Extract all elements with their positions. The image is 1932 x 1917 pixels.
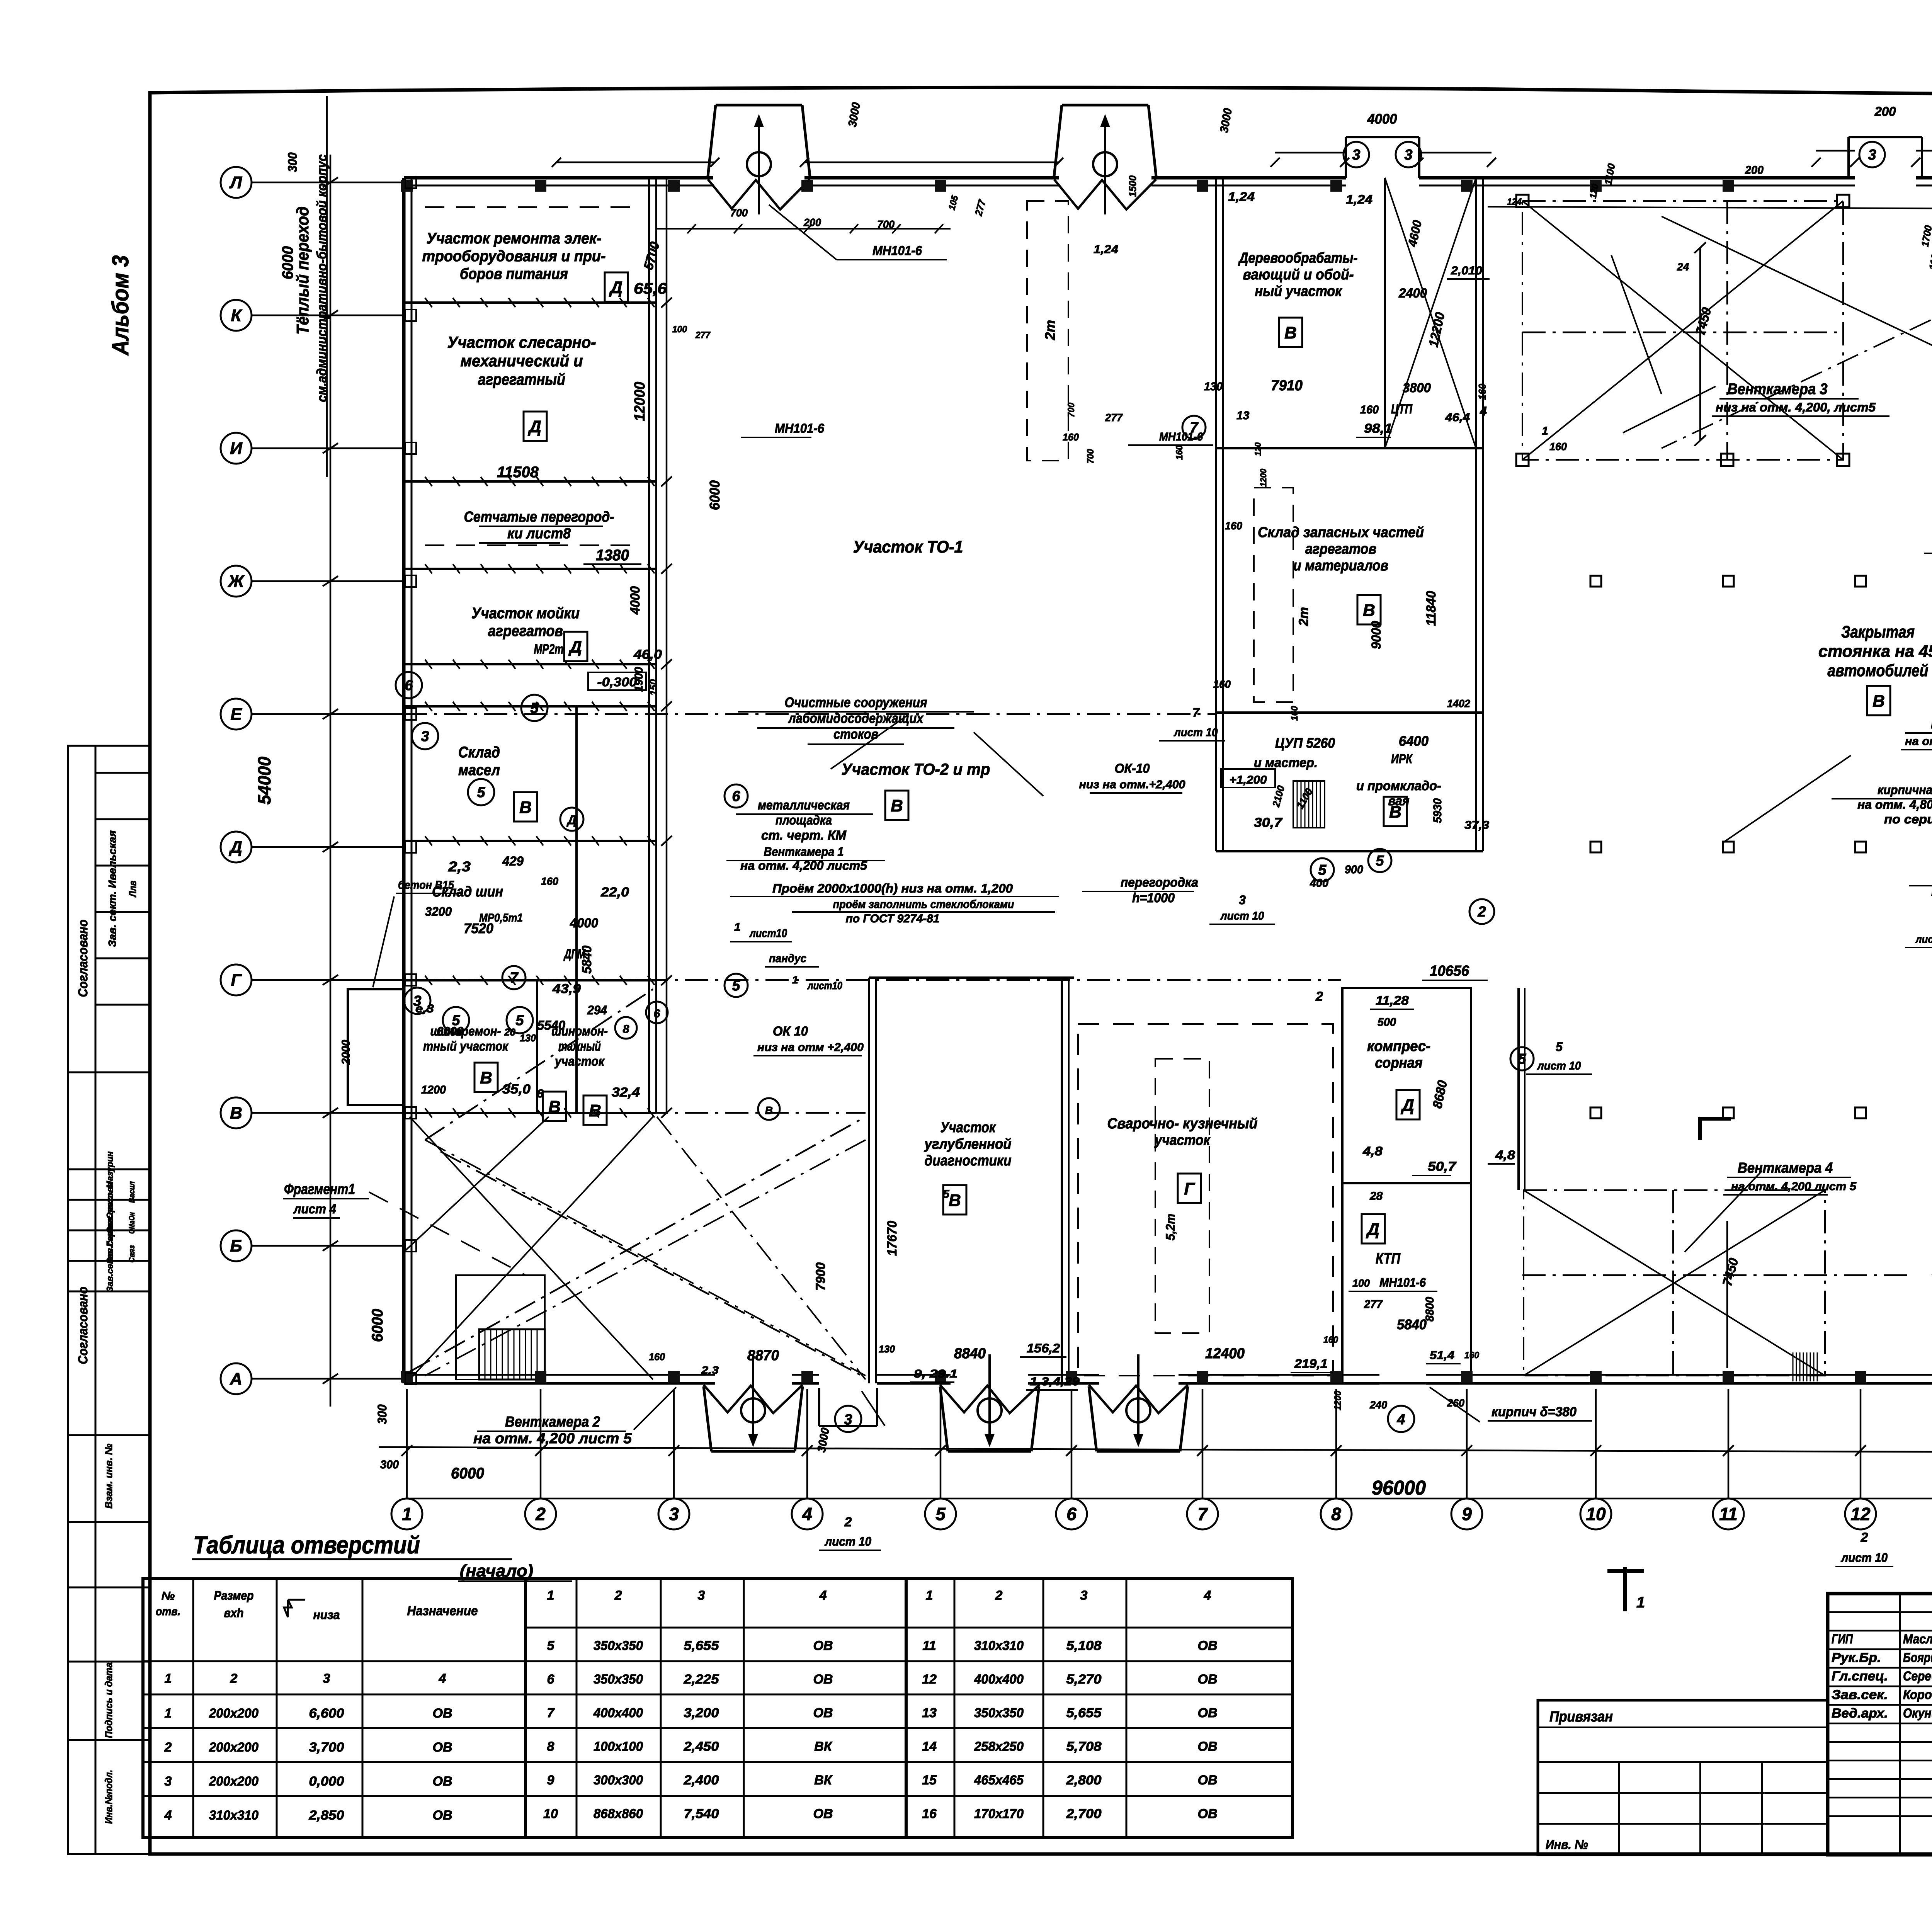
svg-text:Деревообрабаты-: Деревообрабаты- xyxy=(1238,250,1358,266)
svg-text:лист 10: лист 10 xyxy=(824,1534,871,1548)
svg-text:350х350: 350х350 xyxy=(594,1672,643,1687)
svg-text:А: А xyxy=(230,1369,242,1388)
svg-text:участок: участок xyxy=(1154,1132,1211,1148)
svg-text:2000: 2000 xyxy=(340,1040,352,1065)
svg-text:6: 6 xyxy=(547,1672,555,1687)
svg-text:В: В xyxy=(230,1104,242,1123)
svg-text:700: 700 xyxy=(1085,449,1096,464)
svg-text:Венткамера 1: Венткамера 1 xyxy=(764,845,844,859)
svg-text:200х200: 200х200 xyxy=(209,1740,259,1755)
svg-text:1200: 1200 xyxy=(1333,1390,1343,1410)
stamp rotated texts xyxy=(76,830,138,1824)
svg-text:и мастер.: и мастер. xyxy=(1254,755,1318,770)
svg-text:300х300: 300х300 xyxy=(594,1773,643,1788)
svg-text:2: 2 xyxy=(1861,1530,1868,1545)
svg-text:В: В xyxy=(589,1101,601,1120)
svg-text:96000: 96000 xyxy=(1372,1477,1426,1499)
svg-text:3: 3 xyxy=(1352,147,1360,163)
svg-text:боров питания: боров питания xyxy=(460,265,568,282)
svg-text:тный участок: тный участок xyxy=(423,1039,509,1054)
svg-text:98,1: 98,1 xyxy=(1364,421,1392,436)
svg-text:3: 3 xyxy=(1080,1588,1088,1603)
svg-text:трооборудования и при-: трооборудования и при- xyxy=(422,248,606,265)
svg-text:Венткамера 2: Венткамера 2 xyxy=(505,1414,600,1430)
svg-text:В: В xyxy=(1872,692,1885,711)
svg-text:6000: 6000 xyxy=(451,1465,484,1482)
svg-text:Д: Д xyxy=(527,417,541,436)
svg-text:1: 1 xyxy=(402,1504,412,1524)
svg-text:3200: 3200 xyxy=(425,905,452,919)
svg-text:3,200: 3,200 xyxy=(684,1706,719,1720)
svg-text:h=1000: h=1000 xyxy=(1132,891,1175,905)
svg-text:240: 240 xyxy=(1369,1399,1387,1411)
svg-text:ВК: ВК xyxy=(814,1773,833,1788)
svg-text:200: 200 xyxy=(1874,104,1896,119)
svg-text:400: 400 xyxy=(1310,877,1328,890)
svg-text:310х310: 310х310 xyxy=(209,1808,259,1823)
svg-text:219,1: 219,1 xyxy=(1294,1357,1328,1371)
svg-text:Взам. инв. №: Взам. инв. № xyxy=(103,1444,114,1509)
svg-text:160: 160 xyxy=(1464,1350,1480,1361)
svg-text:120: 120 xyxy=(1253,442,1263,456)
svg-text:Закрытая: Закрытая xyxy=(1841,623,1915,641)
svg-text:1: 1 xyxy=(1542,425,1548,437)
svg-text:13: 13 xyxy=(922,1706,937,1720)
svg-text:лист10: лист10 xyxy=(749,927,787,940)
left stamp column grid xyxy=(68,746,150,1854)
left dim line xyxy=(323,155,338,1407)
svg-text:ОВ: ОВ xyxy=(1198,1638,1218,1653)
svg-text:1: 1 xyxy=(547,1588,554,1603)
svg-text:868х860: 868х860 xyxy=(594,1806,643,1821)
svg-text:14: 14 xyxy=(922,1739,937,1754)
svg-text:1402: 1402 xyxy=(1447,697,1470,709)
warm passage note xyxy=(293,96,330,477)
svg-text:5: 5 xyxy=(732,978,740,994)
svg-text:ОВ: ОВ xyxy=(1198,1739,1218,1754)
svg-text:5: 5 xyxy=(452,1012,460,1029)
svg-text:4: 4 xyxy=(439,1671,446,1686)
svg-text:3: 3 xyxy=(1239,893,1246,907)
dims left xyxy=(254,152,389,1424)
svg-text:5,2т: 5,2т xyxy=(1163,1214,1177,1240)
svg-text:6000: 6000 xyxy=(707,480,723,510)
svg-text:1: 1 xyxy=(792,974,798,986)
svg-text:11508: 11508 xyxy=(497,464,539,481)
svg-text:металлическая: металлическая xyxy=(758,798,850,813)
svg-text:3: 3 xyxy=(413,993,421,1009)
svg-text:лист 10: лист 10 xyxy=(1537,1060,1581,1072)
svg-text:500: 500 xyxy=(1378,1016,1396,1029)
svg-text:24: 24 xyxy=(1677,261,1689,273)
svg-text:ОВ: ОВ xyxy=(813,1706,833,1720)
svg-text:Д: Д xyxy=(1400,1096,1414,1115)
svg-text:8: 8 xyxy=(623,1023,629,1036)
svg-text:10: 10 xyxy=(543,1806,558,1821)
svg-text:Назначение: Назначение xyxy=(407,1604,478,1618)
svg-text:28: 28 xyxy=(1369,1190,1383,1203)
svg-text:пандус: пандус xyxy=(769,952,806,965)
svg-text:5: 5 xyxy=(1518,1051,1526,1067)
svg-text:ЦТП: ЦТП xyxy=(1391,402,1413,417)
svg-text:12: 12 xyxy=(1850,1504,1871,1524)
svg-text:вхh: вхh xyxy=(224,1606,244,1620)
svg-text:агрегатов: агрегатов xyxy=(1305,541,1376,557)
svg-text:2: 2 xyxy=(844,1515,852,1529)
svg-text:160: 160 xyxy=(1360,403,1379,416)
svg-text:7: 7 xyxy=(547,1706,555,1720)
svg-text:160: 160 xyxy=(541,875,558,887)
svg-text:Бояршинов: Бояршинов xyxy=(1903,1650,1932,1665)
svg-text:294: 294 xyxy=(587,1003,607,1017)
svg-text:9: 9 xyxy=(547,1773,554,1788)
svg-text:диагностики: диагностики xyxy=(925,1153,1012,1169)
svg-text:100х100: 100х100 xyxy=(594,1739,643,1754)
svg-text:углубленной: углубленной xyxy=(924,1136,1012,1152)
svg-text:Участок слесарно-: Участок слесарно- xyxy=(447,333,596,351)
svg-text:Окунцов: Окунцов xyxy=(1903,1706,1932,1721)
svg-text:170х170: 170х170 xyxy=(974,1806,1024,1821)
svg-text:8: 8 xyxy=(537,1087,544,1100)
svg-text:В: В xyxy=(949,1191,961,1210)
room labels xyxy=(283,101,1932,1567)
svg-text:4000: 4000 xyxy=(1367,111,1397,127)
svg-text:проём заполнить стеклоблоками: проём заполнить стеклоблоками xyxy=(833,898,1014,911)
svg-text:3: 3 xyxy=(1868,147,1876,163)
svg-text:Гл.спец.: Гл.спец. xyxy=(1832,1669,1888,1684)
svg-text:Фрагмент1: Фрагмент1 xyxy=(284,1181,355,1197)
left axis circles xyxy=(221,167,252,1394)
svg-text:6000: 6000 xyxy=(279,246,296,279)
svg-text:МН101-6: МН101-6 xyxy=(775,421,825,436)
svg-text:МР2т: МР2т xyxy=(534,641,564,657)
svg-text:7910: 7910 xyxy=(1271,378,1303,394)
svg-text:Г: Г xyxy=(231,971,242,990)
svg-text:160: 160 xyxy=(649,1351,665,1362)
svg-text:4,8: 4,8 xyxy=(1495,1148,1515,1162)
svg-text:9: 9 xyxy=(1462,1504,1472,1524)
svg-text:258х250: 258х250 xyxy=(974,1739,1024,1754)
svg-text:Размер: Размер xyxy=(214,1589,254,1602)
left axis leaders xyxy=(252,182,402,1379)
table texts xyxy=(156,1588,1218,1823)
svg-text:54000: 54000 xyxy=(254,757,274,805)
svg-text:700: 700 xyxy=(1066,402,1077,417)
svg-text:1200: 1200 xyxy=(1259,468,1268,487)
svg-text:200: 200 xyxy=(803,216,821,228)
bottom axis leaders xyxy=(407,1389,1932,1499)
svg-text:Согласовано: Согласовано xyxy=(76,1287,90,1364)
svg-text:4000: 4000 xyxy=(628,586,643,615)
svg-text:кирпич δ=380: кирпич δ=380 xyxy=(1492,1405,1577,1419)
svg-text:2,3: 2,3 xyxy=(448,859,471,874)
svg-text:лист 10: лист 10 xyxy=(1173,726,1218,739)
svg-text:124: 124 xyxy=(1507,197,1522,207)
svg-text:и промкладо-: и промкладо- xyxy=(1356,779,1441,793)
svg-text:310х310: 310х310 xyxy=(974,1638,1024,1653)
svg-text:2т: 2т xyxy=(1296,607,1311,626)
svg-text:Инв. №: Инв. № xyxy=(1546,1837,1588,1852)
svg-text:бетон В15: бетон В15 xyxy=(398,879,454,891)
svg-text:Рук.Бр.: Рук.Бр. xyxy=(1832,1650,1881,1665)
svg-text:В: В xyxy=(1363,601,1375,620)
svg-text:260: 260 xyxy=(1447,1397,1464,1409)
svg-text:2400: 2400 xyxy=(1398,286,1427,301)
svg-text:1: 1 xyxy=(165,1671,172,1686)
svg-text:Масленников: Масленников xyxy=(1903,1632,1932,1647)
svg-text:2,3: 2,3 xyxy=(701,1364,719,1376)
svg-text:В: В xyxy=(519,798,532,817)
svg-text:отв.: отв. xyxy=(156,1605,180,1618)
svg-text:В: В xyxy=(548,1097,561,1116)
svg-text:11840: 11840 xyxy=(1424,591,1439,626)
svg-text:4: 4 xyxy=(1204,1588,1211,1603)
svg-text:В: В xyxy=(765,1104,773,1116)
svg-text:160: 160 xyxy=(1323,1335,1338,1345)
svg-text:7,540: 7,540 xyxy=(684,1806,719,1821)
svg-text:160: 160 xyxy=(1213,678,1231,690)
svg-text:300: 300 xyxy=(286,152,299,172)
bottom connector line xyxy=(407,1498,1932,1500)
svg-text:участок: участок xyxy=(554,1054,605,1069)
svg-text:5,708: 5,708 xyxy=(1066,1739,1102,1754)
svg-text:11: 11 xyxy=(922,1638,936,1653)
svg-text:МН101-6: МН101-6 xyxy=(1379,1276,1426,1289)
svg-text:6: 6 xyxy=(654,1007,660,1020)
svg-text:ОВ: ОВ xyxy=(1198,1773,1218,1788)
svg-text:2,400: 2,400 xyxy=(683,1773,719,1788)
svg-text:+1,200: +1,200 xyxy=(1230,774,1267,786)
svg-text:Зав.сект. Гаррес: Зав.сект. Гаррес xyxy=(105,1216,115,1292)
svg-text:30,7: 30,7 xyxy=(1254,815,1283,830)
svg-text:100: 100 xyxy=(1352,1277,1370,1289)
svg-text:Участок ТО-1: Участок ТО-1 xyxy=(853,538,963,556)
column ticks top wall xyxy=(348,105,1932,1611)
svg-text:350х350: 350х350 xyxy=(594,1638,643,1653)
svg-text:160: 160 xyxy=(1549,441,1567,452)
svg-text:4: 4 xyxy=(802,1504,812,1524)
svg-text:Венткамера 4: Венткамера 4 xyxy=(1738,1160,1833,1176)
svg-text:шиноремон-: шиноремон- xyxy=(430,1024,501,1039)
svg-text:35,0: 35,0 xyxy=(502,1082,531,1097)
svg-text:Склад запасных частей: Склад запасных частей xyxy=(1258,524,1424,541)
svg-text:156,2: 156,2 xyxy=(1027,1341,1060,1355)
svg-text:лист 10: лист 10 xyxy=(1220,910,1264,922)
svg-text:по ГОСТ 9274-81: по ГОСТ 9274-81 xyxy=(846,912,940,925)
svg-text:3800: 3800 xyxy=(1403,381,1431,395)
svg-text:низ на отм +2,400: низ на отм +2,400 xyxy=(757,1041,864,1054)
svg-text:№: № xyxy=(162,1590,175,1602)
svg-text:агрегатный: агрегатный xyxy=(478,370,565,388)
svg-text:Е: Е xyxy=(230,705,242,724)
svg-text:И: И xyxy=(230,439,243,458)
svg-text:2: 2 xyxy=(164,1740,172,1755)
svg-text:МН101-6: МН101-6 xyxy=(872,243,922,258)
svg-text:160: 160 xyxy=(1063,431,1079,443)
svg-text:Сварочно- кузнечный: Сварочно- кузнечный xyxy=(1107,1116,1258,1132)
svg-text:700: 700 xyxy=(877,218,895,230)
svg-text:лабомидосодержащих: лабомидосодержащих xyxy=(788,710,924,726)
svg-text:46,0: 46,0 xyxy=(633,647,662,662)
svg-text:429: 429 xyxy=(502,854,524,869)
svg-text:тажный: тажный xyxy=(558,1039,601,1054)
svg-text:4: 4 xyxy=(164,1808,172,1823)
svg-text:Ж: Ж xyxy=(228,572,245,591)
svg-text:Серебров: Серебров xyxy=(1903,1669,1932,1684)
svg-text:В: В xyxy=(891,796,903,815)
svg-text:2: 2 xyxy=(614,1588,622,1603)
svg-text:К: К xyxy=(231,306,242,325)
svg-text:Вед.арх.: Вед.арх. xyxy=(1832,1706,1888,1721)
svg-text:4000: 4000 xyxy=(570,916,598,930)
svg-text:8: 8 xyxy=(547,1739,554,1754)
top dim line xyxy=(552,147,1932,167)
svg-text:13: 13 xyxy=(1236,409,1250,422)
svg-text:3: 3 xyxy=(669,1504,679,1524)
svg-text:11,28: 11,28 xyxy=(1376,993,1409,1007)
svg-text:50,7: 50,7 xyxy=(1428,1159,1457,1174)
svg-text:ОВ: ОВ xyxy=(813,1806,833,1821)
svg-text:ст. черт. КМ: ст. черт. КМ xyxy=(761,828,847,843)
svg-text:МР0,5т1: МР0,5т1 xyxy=(479,912,523,924)
svg-text:1: 1 xyxy=(926,1588,933,1603)
svg-text:Проём 2000х1000(h) низ на отм.: Проём 2000х1000(h) низ на отм. 1,200 xyxy=(772,881,1013,895)
svg-text:1: 1 xyxy=(165,1706,172,1721)
svg-text:автомобилей: автомобилей xyxy=(1828,661,1929,680)
svg-text:7: 7 xyxy=(1192,706,1200,720)
svg-text:5: 5 xyxy=(477,784,485,801)
svg-text:ОК 10: ОК 10 xyxy=(773,1024,808,1039)
svg-text:130: 130 xyxy=(879,1343,895,1355)
svg-text:5: 5 xyxy=(530,700,539,716)
svg-text:200х200: 200х200 xyxy=(209,1706,259,1721)
svg-text:на отм. 4,200 лист 5: на отм. 4,200 лист 5 xyxy=(473,1431,632,1447)
svg-text:465х465: 465х465 xyxy=(974,1773,1024,1788)
svg-text:6: 6 xyxy=(732,788,740,805)
svg-text:6: 6 xyxy=(405,677,413,694)
svg-text:механический и: механический и xyxy=(461,352,583,370)
svg-text:Участок мойки: Участок мойки xyxy=(471,605,580,622)
svg-text:лист10: лист10 xyxy=(807,980,842,992)
svg-text:Васил: Васил xyxy=(128,1181,136,1203)
svg-text:2,010: 2,010 xyxy=(1451,264,1482,277)
svg-text:лист 10: лист 10 xyxy=(1840,1551,1888,1565)
title block outer xyxy=(1538,1594,1932,1855)
svg-text:4: 4 xyxy=(1480,404,1487,418)
svg-text:низ на отм. 4,200, лист5: низ на отм. 4,200, лист5 xyxy=(1716,400,1876,414)
svg-text:700: 700 xyxy=(730,207,748,219)
svg-text:2,800: 2,800 xyxy=(1066,1773,1101,1788)
svg-text:4: 4 xyxy=(819,1588,827,1603)
svg-text:4: 4 xyxy=(1396,1412,1405,1428)
svg-text:100: 100 xyxy=(672,324,687,335)
svg-text:шиномон-: шиномон- xyxy=(551,1024,608,1039)
svg-text:5840: 5840 xyxy=(1397,1317,1427,1332)
svg-text:200: 200 xyxy=(1745,164,1764,177)
svg-text:5,270: 5,270 xyxy=(1066,1672,1102,1687)
svg-text:-0,300: -0,300 xyxy=(597,675,637,689)
svg-text:6: 6 xyxy=(1066,1504,1077,1524)
svg-text:400х400: 400х400 xyxy=(593,1706,643,1720)
svg-text:В: В xyxy=(480,1068,492,1087)
svg-text:масел: масел xyxy=(458,762,500,779)
svg-text:Подпись и дата: Подпись и дата xyxy=(103,1662,114,1738)
svg-text:1380: 1380 xyxy=(596,547,629,564)
svg-text:65,6: 65,6 xyxy=(634,280,667,297)
svg-text:8: 8 xyxy=(1331,1504,1341,1524)
svg-text:400х400: 400х400 xyxy=(974,1672,1024,1687)
svg-text:Очистные сооружения: Очистные сооружения xyxy=(785,694,927,710)
svg-text:2: 2 xyxy=(995,1588,1003,1603)
svg-text:9000: 9000 xyxy=(1369,621,1384,649)
svg-text:ЦУП 5260: ЦУП 5260 xyxy=(1275,735,1335,751)
svg-text:Участок: Участок xyxy=(940,1119,996,1136)
svg-text:по серии 1.431.9-24: по серии 1.431.9-24 xyxy=(1884,812,1932,826)
svg-text:5,655: 5,655 xyxy=(684,1638,719,1653)
svg-text:6,600: 6,600 xyxy=(309,1706,344,1721)
svg-text:7900: 7900 xyxy=(813,1262,828,1291)
svg-text:ки лист8: ки лист8 xyxy=(507,526,571,542)
svg-text:5: 5 xyxy=(547,1638,555,1653)
svg-text:2,700: 2,700 xyxy=(1066,1806,1101,1821)
svg-text:кирпичная перегородка: кирпичная перегородка xyxy=(1878,783,1932,797)
svg-text:8800: 8800 xyxy=(1423,1297,1436,1322)
svg-text:ный участок: ный участок xyxy=(1255,283,1343,299)
svg-text:ГИП: ГИП xyxy=(1832,1632,1853,1647)
svg-text:160: 160 xyxy=(1476,383,1488,400)
svg-text:агрегатов: агрегатов xyxy=(488,623,563,640)
svg-text:Привязан: Привязан xyxy=(1549,1709,1613,1725)
svg-text:вающий и обой-: вающий и обой- xyxy=(1243,267,1354,283)
svg-text:8870: 8870 xyxy=(747,1347,779,1364)
svg-text:51,4: 51,4 xyxy=(1430,1349,1454,1362)
svg-text:2,850: 2,850 xyxy=(308,1808,344,1823)
svg-text:стоянка на 45: стоянка на 45 xyxy=(1818,642,1932,661)
svg-text:3,700: 3,700 xyxy=(309,1740,344,1755)
svg-text:Зав. сект. Ивельская: Зав. сект. Ивельская xyxy=(106,830,118,947)
svg-text:ОВ: ОВ xyxy=(1198,1806,1218,1821)
svg-text:2: 2 xyxy=(1477,904,1486,920)
title block texts xyxy=(1546,1616,1932,1890)
svg-text:9, 29.1: 9, 29.1 xyxy=(914,1368,957,1380)
svg-text:Зав.сек.: Зав.сек. xyxy=(1832,1687,1888,1702)
svg-text:В: В xyxy=(1389,803,1401,822)
svg-text:ОВ: ОВ xyxy=(813,1638,833,1653)
svg-text:5,108: 5,108 xyxy=(1066,1638,1102,1653)
svg-text:900: 900 xyxy=(1345,863,1363,876)
svg-text:160: 160 xyxy=(1174,445,1185,460)
svg-text:на отм. 4,200, лист5: на отм. 4,200, лист5 xyxy=(1905,735,1932,748)
svg-text:12400: 12400 xyxy=(1205,1345,1245,1362)
svg-text:ИРК: ИРК xyxy=(1391,752,1413,766)
svg-text:на отм. 4,800, выше сборная: на отм. 4,800, выше сборная xyxy=(1857,798,1932,811)
svg-text:Участок ремонта элек-: Участок ремонта элек- xyxy=(427,230,602,247)
svg-text:3: 3 xyxy=(165,1774,172,1789)
svg-text:лист 4: лист 4 xyxy=(293,1202,336,1216)
svg-text:1,24: 1,24 xyxy=(1094,243,1118,256)
svg-text:12: 12 xyxy=(922,1672,937,1687)
svg-text:32,4: 32,4 xyxy=(612,1085,640,1100)
svg-text:на отм. 4,200 лист 5: на отм. 4,200 лист 5 xyxy=(1731,1180,1857,1193)
svg-text:277: 277 xyxy=(695,330,711,340)
bottom axis circles xyxy=(391,1499,1932,1529)
svg-text:ОВ: ОВ xyxy=(1198,1706,1218,1720)
svg-text:В: В xyxy=(1284,323,1297,342)
dims bottom xyxy=(380,1458,1932,1499)
svg-text:1,24: 1,24 xyxy=(1228,190,1255,204)
bottom dim line xyxy=(379,1445,1932,1456)
svg-text:Д: Д xyxy=(609,278,622,297)
